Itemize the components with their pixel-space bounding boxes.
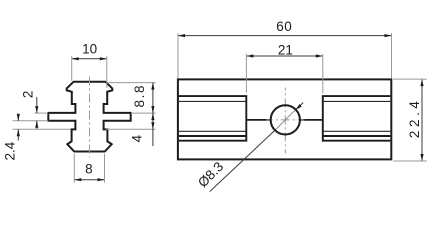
dimension 8.8 line xyxy=(152,83,154,114)
extension line cap top right xyxy=(109,82,156,84)
right view left block outline xyxy=(179,96,246,141)
dimension 8 arrow right xyxy=(98,178,105,181)
circle horizontal centerline xyxy=(266,119,304,121)
dimension 2.4 lower line with arrow xyxy=(17,129,20,140)
dimension 22.4 text (rotated) xyxy=(407,97,422,138)
svg-text:2: 2 xyxy=(20,91,35,99)
dimension 8 line xyxy=(74,179,104,181)
leader line upper segment xyxy=(296,103,304,110)
extension line step left xyxy=(13,128,71,130)
dimension 10 arrow right xyxy=(100,57,107,60)
right view right block thick line lower xyxy=(323,135,391,137)
dimension 22.4 extension line top xyxy=(393,78,427,80)
dimension 10 line xyxy=(72,58,107,60)
dimension 21 arrow left xyxy=(246,54,253,57)
dimension 8 extension line left xyxy=(73,154,75,183)
dimension 22.4 arrow top xyxy=(420,79,423,86)
right view outer rectangle xyxy=(178,79,391,159)
dimension 2 upper line with arrow xyxy=(35,97,38,113)
dimension 8 extension line right xyxy=(104,154,106,183)
dimension 60 extension line left xyxy=(177,33,179,78)
dimension 10 arrow left xyxy=(72,57,79,60)
circle vertical centerline xyxy=(284,88,286,154)
extension line arm top left xyxy=(35,112,49,114)
dimension 22.4 line xyxy=(421,79,423,161)
dimension 22.4 arrow bottom xyxy=(420,154,423,161)
dimension 21 extension line right xyxy=(322,54,324,94)
dimension 21 arrow right xyxy=(316,54,323,57)
dimension 2.4 text (rotated) xyxy=(3,141,18,160)
extension line arm bottom left xyxy=(13,120,49,122)
dimension 4 text (rotated) xyxy=(129,134,144,142)
dimension 2.4 upper line with arrow xyxy=(17,114,20,121)
dimension 21 extension line left xyxy=(245,54,247,93)
left view vertical centerline xyxy=(89,77,91,158)
dimension 4 arrow bottom xyxy=(151,122,154,129)
svg-text:22.4: 22.4 xyxy=(407,97,422,138)
dimension 2 text (rotated) xyxy=(20,91,35,99)
right view right block thin line lower xyxy=(323,130,391,132)
mid line left of circle xyxy=(246,119,270,121)
mid line right of circle xyxy=(300,119,323,121)
dimension 21 line xyxy=(246,55,322,57)
dimension 60 text xyxy=(276,19,292,34)
right view left block thin line upper xyxy=(179,100,246,102)
circle diagonal centerline xyxy=(272,106,299,133)
dimension 8.8 arrow bottom xyxy=(151,106,154,113)
dimension 60 line xyxy=(178,35,392,37)
svg-text:21: 21 xyxy=(278,43,293,58)
right view right block outline xyxy=(323,96,391,141)
dimension 8.8 arrow top xyxy=(151,83,154,90)
dimension 8 arrow left xyxy=(74,178,81,181)
svg-text:8.8: 8.8 xyxy=(132,84,147,108)
dimension 10 extension line left xyxy=(71,56,73,80)
hole circle xyxy=(271,105,300,134)
diameter label xyxy=(195,159,226,190)
dimension 60 extension line right xyxy=(391,33,393,78)
dimension 22.4 extension line bottom xyxy=(393,160,427,162)
left view profile outline xyxy=(48,82,130,152)
extension line arm top right xyxy=(131,112,156,114)
dimension 10 extension line right xyxy=(106,56,108,88)
dimension 60 arrow left xyxy=(178,34,185,37)
dimension 10 text xyxy=(82,41,97,56)
right view left block thin line lower xyxy=(179,130,246,132)
dimension 8.8 text (rotated) xyxy=(132,84,147,108)
right view right block thin line upper xyxy=(323,100,391,102)
svg-text:8: 8 xyxy=(85,162,93,177)
right view left block thick line lower xyxy=(179,135,246,137)
dimension 2 lower line with arrow xyxy=(35,121,38,129)
dimension 60 arrow right xyxy=(385,34,392,37)
svg-text:10: 10 xyxy=(82,41,97,56)
dimension 4 arrow top xyxy=(151,113,154,120)
dimension 4 line xyxy=(152,113,154,146)
extension line step right xyxy=(106,128,156,130)
leader arrowhead at circle edge xyxy=(296,104,302,110)
svg-text:2.4: 2.4 xyxy=(3,141,18,160)
svg-text:4: 4 xyxy=(129,134,144,142)
leader line lower segment xyxy=(210,130,275,191)
dimension 8 text xyxy=(85,162,93,177)
svg-text:60: 60 xyxy=(276,19,292,34)
dimension 21 text xyxy=(278,43,293,58)
